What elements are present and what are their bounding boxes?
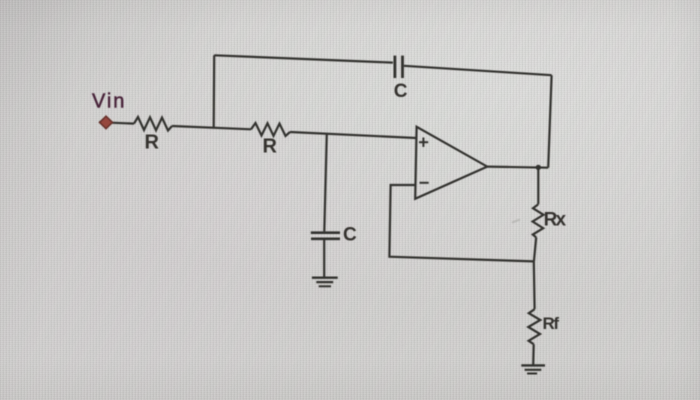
svg-text:C: C — [343, 224, 357, 245]
svg-text:Rf: Rf — [543, 314, 560, 333]
svg-text:Rx: Rx — [544, 210, 567, 231]
svg-text:R: R — [263, 136, 278, 158]
svg-text:R: R — [145, 131, 160, 153]
svg-text:Vin: Vin — [92, 91, 125, 113]
svg-text:C: C — [394, 81, 408, 102]
